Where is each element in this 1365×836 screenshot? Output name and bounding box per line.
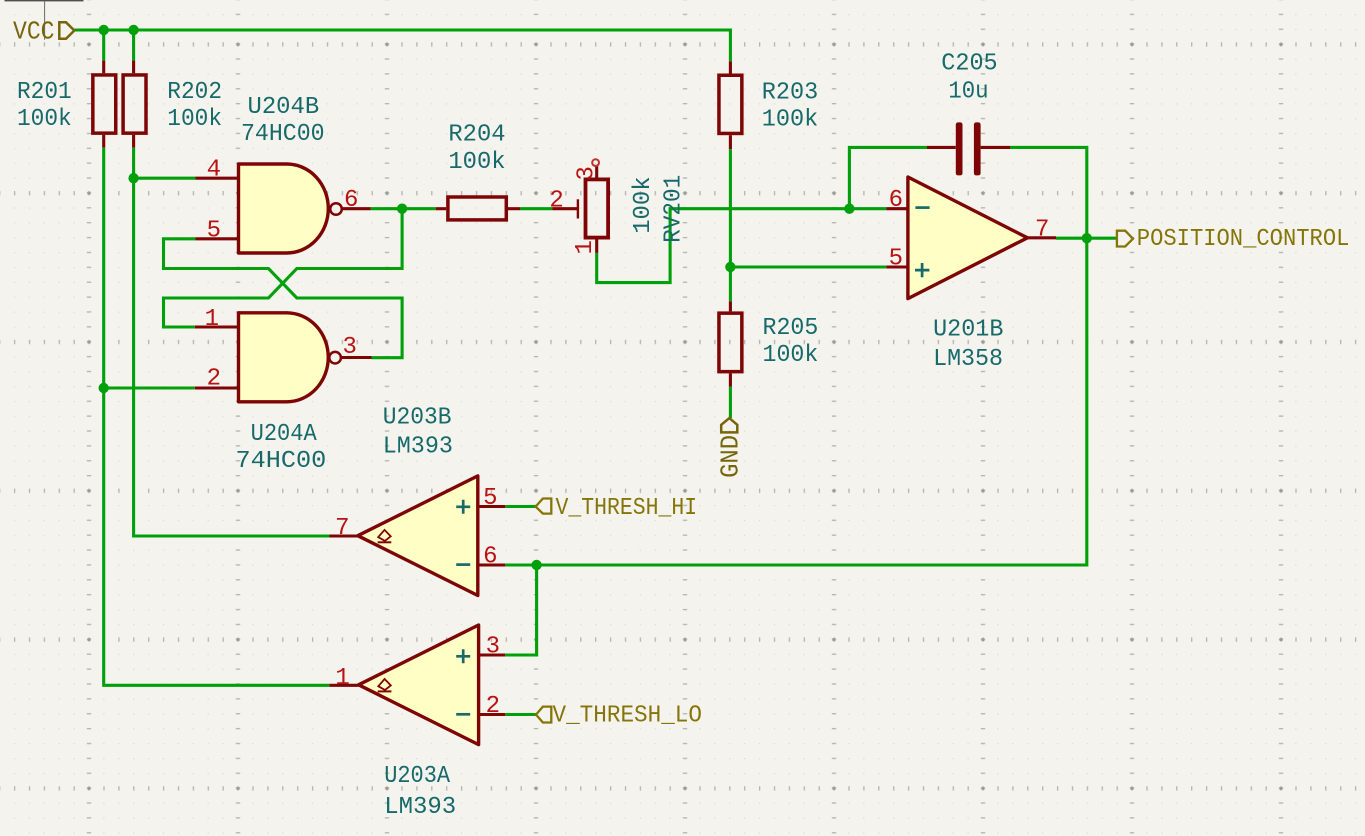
svg-text:U204B: U204B [248, 94, 320, 121]
svg-text:R203: R203 [762, 80, 818, 107]
svg-text:LM393: LM393 [384, 794, 456, 821]
svg-text:R204: R204 [448, 122, 505, 149]
svg-text:100k: 100k [630, 176, 657, 233]
svg-text:LM393: LM393 [383, 433, 453, 460]
svg-text:3: 3 [343, 334, 357, 361]
svg-text:4: 4 [207, 157, 221, 184]
svg-text:GND: GND [717, 435, 746, 478]
svg-text:2: 2 [207, 366, 221, 393]
svg-text:U203A: U203A [384, 763, 450, 790]
svg-text:U203B: U203B [383, 404, 452, 431]
svg-text:74HC00: 74HC00 [241, 121, 325, 148]
svg-text:RV201: RV201 [661, 175, 688, 243]
svg-text:74HC00: 74HC00 [236, 448, 327, 475]
svg-text:VCC: VCC [13, 18, 55, 47]
svg-text:LM358: LM358 [933, 346, 1003, 373]
svg-text:5: 5 [483, 485, 497, 512]
svg-text:6: 6 [483, 544, 497, 571]
svg-text:R205: R205 [763, 315, 819, 342]
svg-text:C205: C205 [941, 51, 997, 78]
svg-text:1: 1 [572, 240, 599, 254]
svg-text:5: 5 [889, 246, 903, 273]
svg-text:2: 2 [549, 187, 563, 214]
svg-text:100k: 100k [17, 106, 72, 133]
svg-text:100k: 100k [448, 149, 505, 176]
svg-text:2: 2 [486, 693, 500, 720]
svg-text:100k: 100k [762, 107, 818, 134]
svg-text:6: 6 [889, 187, 903, 214]
svg-text:7: 7 [335, 515, 349, 542]
svg-text:100k: 100k [167, 106, 222, 133]
svg-text:U204A: U204A [251, 421, 318, 448]
svg-text:R201: R201 [17, 79, 72, 106]
svg-text:1: 1 [335, 665, 349, 692]
svg-text:1: 1 [205, 306, 219, 333]
svg-text:U201B: U201B [933, 316, 1003, 343]
svg-text:V_THRESH_LO: V_THRESH_LO [553, 703, 703, 730]
svg-text:5: 5 [207, 217, 221, 244]
svg-text:6: 6 [344, 187, 358, 214]
svg-text:10u: 10u [948, 78, 988, 105]
svg-text:7: 7 [1035, 216, 1049, 243]
svg-text:POSITION_CONTROL: POSITION_CONTROL [1137, 226, 1350, 253]
svg-text:3: 3 [574, 166, 601, 180]
svg-text:3: 3 [486, 634, 500, 661]
svg-text:100k: 100k [763, 342, 819, 369]
svg-text:R202: R202 [167, 79, 222, 106]
svg-text:V_THRESH_HI: V_THRESH_HI [556, 495, 698, 522]
